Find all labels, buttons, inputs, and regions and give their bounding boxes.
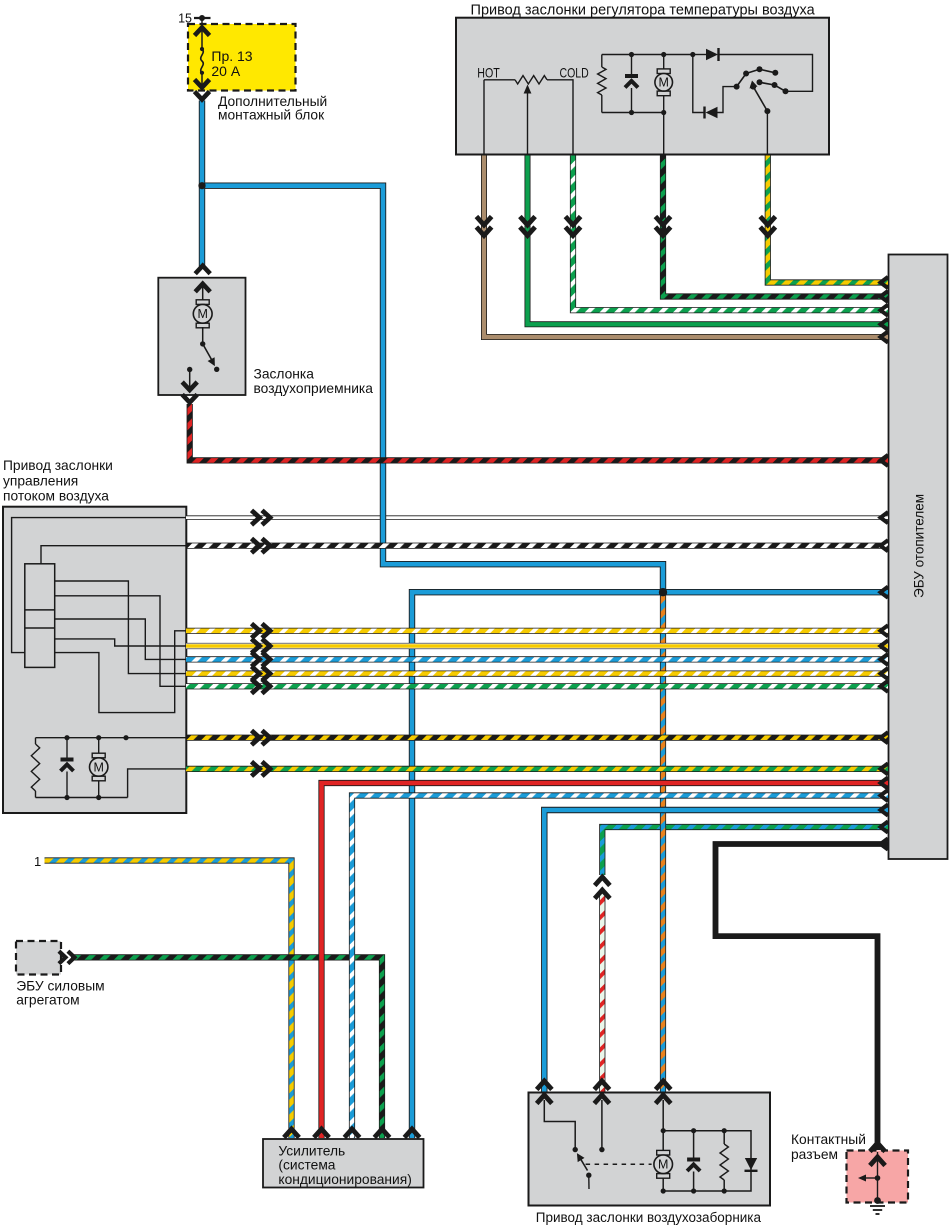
svg-text:20 А: 20 А: [211, 63, 240, 79]
svg-text:1: 1: [34, 854, 41, 869]
svg-text:Усилитель: Усилитель: [278, 1143, 345, 1158]
svg-text:Дополнительный: Дополнительный: [218, 94, 327, 109]
svg-text:M: M: [658, 1158, 668, 1172]
svg-text:разъем: разъем: [791, 1147, 838, 1162]
svg-text:Привод заслонки: Привод заслонки: [3, 458, 113, 473]
svg-text:агрегатом: агрегатом: [16, 993, 79, 1008]
svg-text:монтажный блок: монтажный блок: [218, 108, 325, 123]
svg-text:Заслонка: Заслонка: [254, 367, 315, 382]
svg-text:(система: (система: [278, 1158, 335, 1173]
svg-text:M: M: [658, 76, 668, 90]
svg-text:управления: управления: [3, 473, 78, 488]
svg-text:потоком воздуха: потоком воздуха: [3, 489, 109, 504]
svg-text:M: M: [93, 760, 103, 774]
svg-text:Пр. 13: Пр. 13: [211, 48, 252, 64]
svg-text:M: M: [197, 307, 207, 321]
svg-text:ЭБУ силовым: ЭБУ силовым: [16, 978, 104, 993]
svg-text:COLD: COLD: [560, 65, 589, 81]
svg-text:ЭБУ отопителем: ЭБУ отопителем: [911, 494, 927, 598]
svg-text:HOT: HOT: [477, 65, 500, 81]
svg-text:воздухоприемника: воздухоприемника: [254, 381, 374, 396]
svg-text:Контактный: Контактный: [791, 1132, 866, 1147]
svg-text:Привод заслонки воздухозаборни: Привод заслонки воздухозаборника: [536, 1210, 762, 1225]
svg-text:кондиционирования): кондиционирования): [278, 1172, 411, 1187]
svg-text:15: 15: [178, 12, 192, 26]
svg-text:Привод заслонки регулятора тем: Привод заслонки регулятора температуры в…: [471, 3, 816, 19]
